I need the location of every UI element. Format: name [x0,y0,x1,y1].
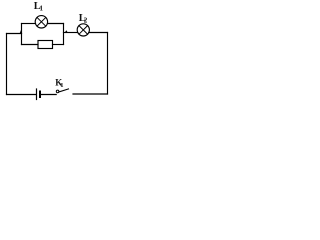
svg-text:1: 1 [60,82,63,89]
svg-text:1: 1 [40,5,44,13]
svg-text:2: 2 [84,17,88,25]
